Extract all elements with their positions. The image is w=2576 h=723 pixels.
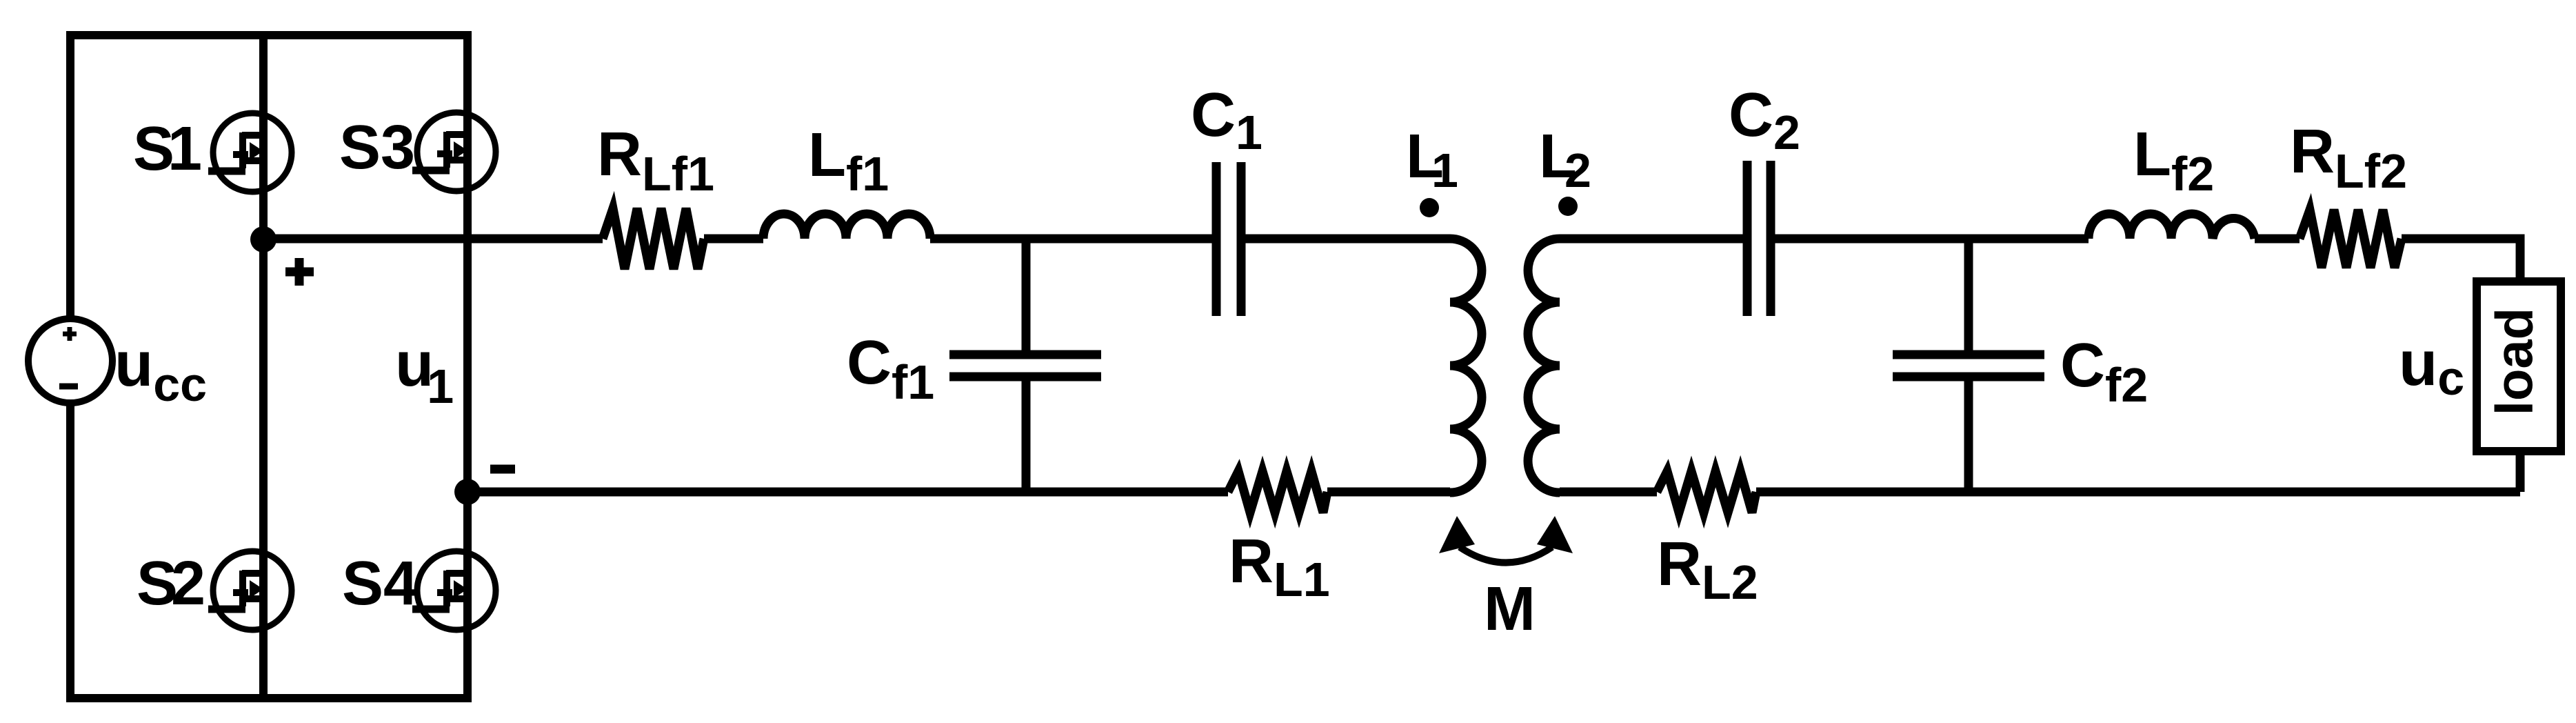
- svg-text:L2: L2: [1539, 122, 1591, 197]
- svg-text:S3: S3: [339, 113, 415, 182]
- capacitor C_f1: [949, 355, 1101, 377]
- polarity dot L2: [1558, 197, 1578, 216]
- resistor R_Lf1: [603, 208, 704, 269]
- polarity dot L1: [1420, 198, 1439, 217]
- label minus: [490, 465, 515, 474]
- svg-text:RL2: RL2: [1657, 530, 1758, 609]
- switch S2: [208, 551, 292, 630]
- wire bottom primary (minus node to R_L1 to L1): [467, 488, 1450, 497]
- svg-text:S2: S2: [137, 549, 205, 618]
- svg-text:C1: C1: [1191, 81, 1262, 159]
- wire bottom secondary (L2 to R_L2 to load): [1560, 488, 2520, 497]
- inductor L_f2: [2089, 214, 2255, 239]
- svg-text:ucc: ucc: [114, 329, 207, 411]
- svg-text:C2: C2: [1729, 81, 1800, 159]
- label plus: [285, 258, 314, 286]
- wire C_f2 branch: [1964, 239, 1973, 492]
- load box: [2477, 281, 2561, 451]
- voltage source u_cc: [28, 319, 112, 403]
- inductor L1 primary coil: [1450, 239, 1482, 493]
- svg-text:Cf1: Cf1: [847, 328, 934, 409]
- resistor R_L1: [1228, 471, 1327, 513]
- capacitor C_f2: [1893, 355, 2044, 377]
- wire secondary top (L2 to C2, C2 to corner): [1560, 239, 2520, 492]
- mutual coupling M arrows: [1439, 516, 1573, 563]
- svg-text:S4: S4: [342, 549, 418, 618]
- switch S3: [412, 112, 496, 191]
- svg-text:RLf2: RLf2: [2290, 117, 2407, 198]
- resistor R_Lf2: [2300, 210, 2402, 268]
- capacitor C2: [1747, 161, 1771, 316]
- inductor L2 secondary coil: [1528, 239, 1560, 493]
- switch S1: [208, 113, 292, 192]
- inductor L_f1: [763, 214, 930, 239]
- svg-text:Cf2: Cf2: [2060, 331, 2148, 412]
- wire top main (plus node to C1 left plate): [263, 235, 1450, 244]
- svg-text:uc: uc: [2399, 328, 2464, 405]
- resistor R_L2: [1657, 471, 1756, 513]
- wire C_f1 branch: [1022, 239, 1031, 492]
- capacitor C1: [1216, 162, 1241, 316]
- svg-text:Lf1: Lf1: [808, 121, 889, 201]
- svg-text:Lf2: Lf2: [2133, 120, 2214, 201]
- svg-text:RL1: RL1: [1229, 527, 1330, 606]
- svg-text:S1: S1: [133, 115, 202, 184]
- svg-text:M: M: [1484, 575, 1536, 644]
- svg-text:load: load: [2486, 308, 2544, 415]
- junction node minus: [454, 479, 481, 505]
- svg-text:u1: u1: [395, 329, 454, 413]
- wire middle leg S1/S2: [259, 35, 268, 698]
- svg-text:L1: L1: [1406, 122, 1458, 197]
- junction node plus: [250, 226, 276, 252]
- svg-text:RLf1: RLf1: [597, 120, 714, 201]
- bridge box outline: [70, 35, 467, 698]
- switch S4: [412, 551, 496, 630]
